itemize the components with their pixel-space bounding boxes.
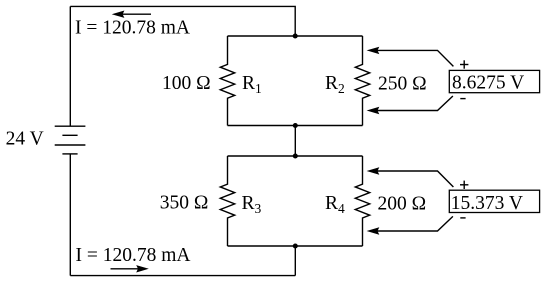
- svg-text:350 Ω: 350 Ω: [160, 192, 209, 213]
- svg-text:24 V: 24 V: [6, 129, 44, 150]
- svg-text:I = 120.78 mA: I = 120.78 mA: [75, 18, 190, 39]
- svg-text:I = 120.78 mA: I = 120.78 mA: [76, 245, 191, 266]
- svg-text:8.6275 V: 8.6275 V: [452, 73, 524, 94]
- svg-text:100 Ω: 100 Ω: [162, 73, 211, 94]
- svg-text:15.373 V: 15.373 V: [451, 193, 523, 214]
- svg-text:200 Ω: 200 Ω: [378, 194, 427, 215]
- svg-text:250 Ω: 250 Ω: [378, 74, 427, 95]
